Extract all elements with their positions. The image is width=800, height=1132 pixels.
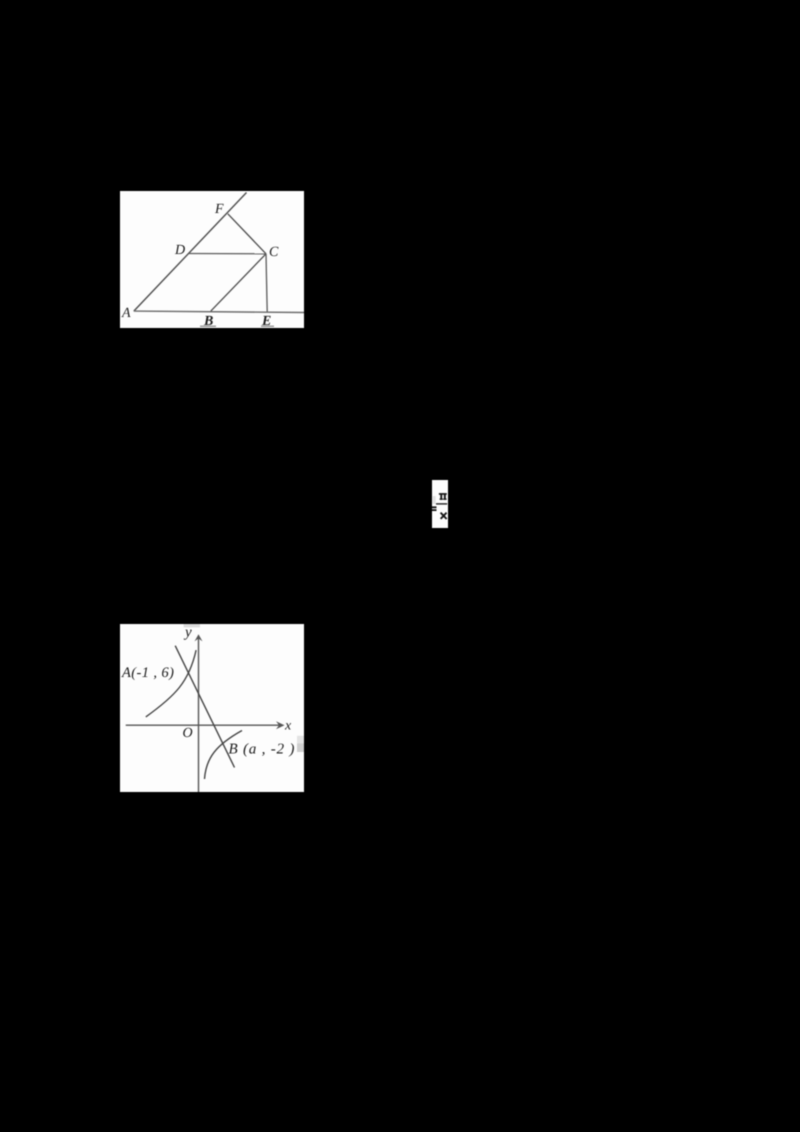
segment C E xyxy=(266,254,267,312)
label y xyxy=(184,630,192,640)
label C xyxy=(270,247,279,256)
ray A through D and F to top right xyxy=(134,193,247,312)
label A(-1, 6) xyxy=(121,667,173,680)
y axis xyxy=(198,636,200,792)
baseline through A B E xyxy=(134,311,304,312)
x axis arrowhead xyxy=(276,721,285,729)
y axis arrowhead xyxy=(195,634,203,641)
label B xyxy=(204,316,213,325)
gray band top xyxy=(184,624,200,627)
label D xyxy=(175,245,185,254)
x axis xyxy=(126,724,282,726)
straight line with negative slope xyxy=(175,646,234,768)
segment D C xyxy=(189,253,266,255)
underline under E xyxy=(261,326,274,328)
figure image 2: hyperbola and line on coordinate axes xyxy=(120,624,304,792)
label O xyxy=(183,728,192,737)
fraction bar xyxy=(436,503,447,504)
label x xyxy=(285,723,291,729)
gray patch right (two tones) xyxy=(297,736,304,744)
figure image 1: parallelogram ABCD with ray AF, points E on baseline xyxy=(120,191,304,328)
label B (a, -2) xyxy=(229,743,294,757)
hyperbola branch lower right (quadrant IV) xyxy=(205,731,243,780)
equals sign (cut at left edge) xyxy=(430,506,437,508)
label A xyxy=(121,308,130,317)
label E xyxy=(262,316,271,325)
segment F C xyxy=(228,214,266,254)
x denominator (drawn) xyxy=(441,513,446,518)
pi numerator (drawn) xyxy=(439,493,447,500)
formula fragment: = pi/x xyxy=(432,480,448,528)
label F xyxy=(215,204,224,213)
light gray smudge xyxy=(433,496,436,504)
underline under B xyxy=(200,326,216,328)
segment B C xyxy=(211,254,266,311)
hyperbola branch upper left (quadrant II) xyxy=(146,650,196,717)
